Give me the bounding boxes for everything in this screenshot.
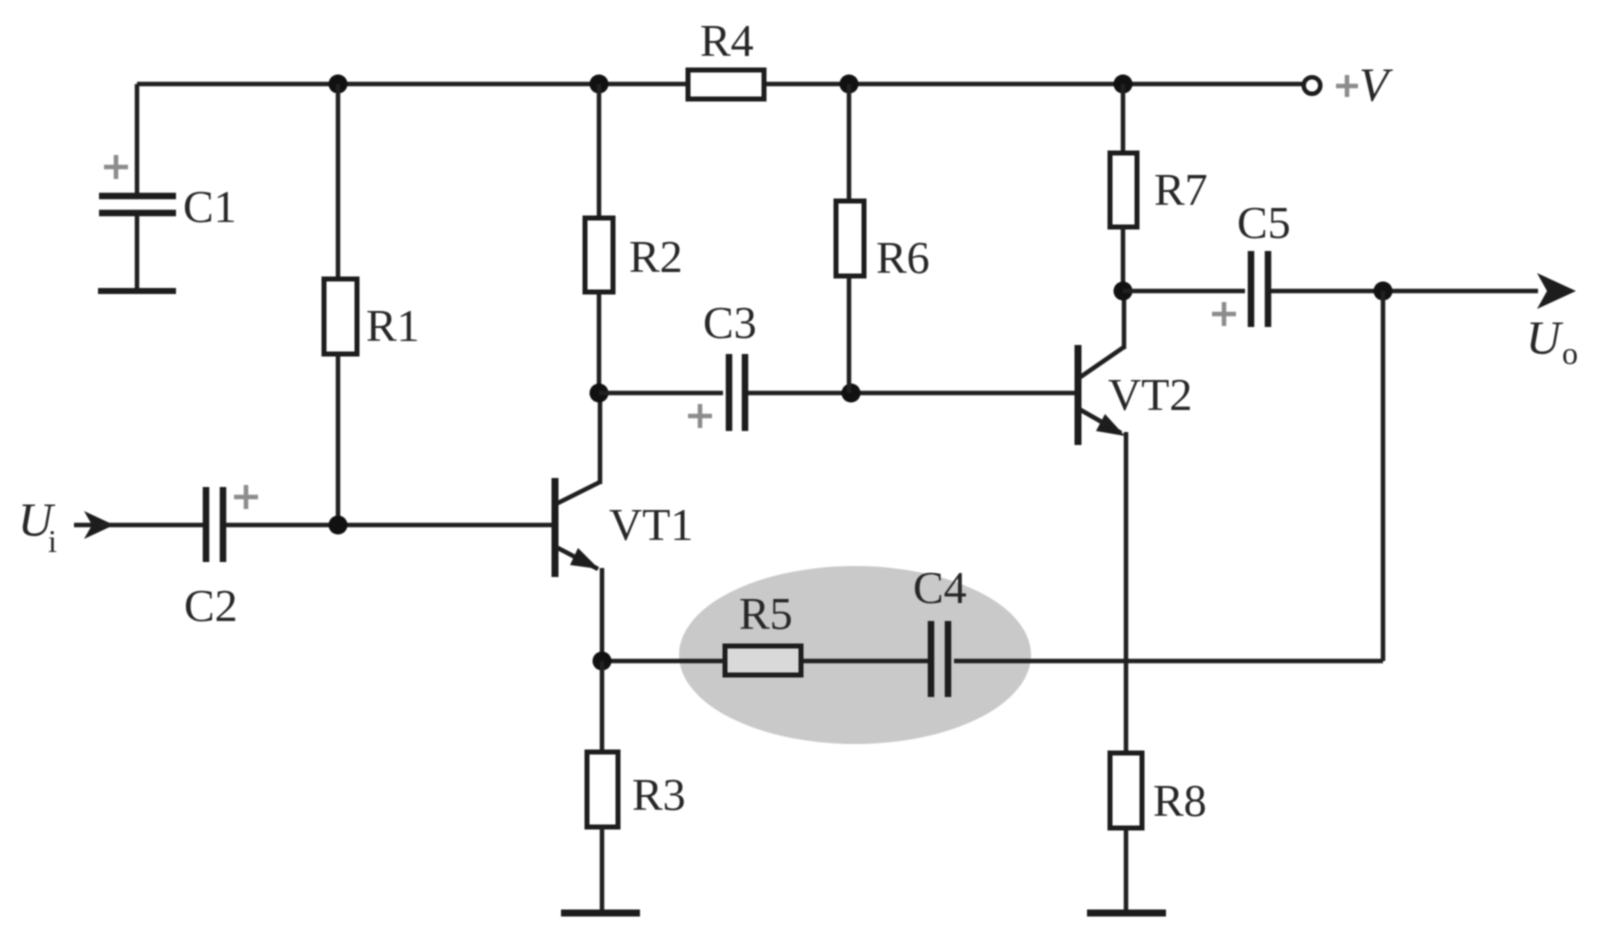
wire feedback vertical <box>1381 291 1386 661</box>
capacitor C2 <box>184 485 258 631</box>
wire VT1 collector <box>598 393 603 484</box>
capacitor C3 <box>688 297 757 431</box>
svg-text:o: o <box>1562 335 1578 371</box>
resistor R6 <box>836 84 930 393</box>
transistor VT1 <box>552 478 694 577</box>
wire top supply rail <box>137 82 1303 87</box>
wire node F to C3 <box>599 391 723 396</box>
wire feedback horizontal <box>954 659 1383 664</box>
capacitor C5 <box>1212 197 1291 327</box>
node B (rail / R2 top) <box>590 75 609 94</box>
svg-text:R1: R1 <box>366 300 420 351</box>
svg-text:C4: C4 <box>913 562 967 613</box>
svg-text:C5: C5 <box>1237 197 1291 248</box>
svg-text:R6: R6 <box>876 232 930 283</box>
transistor VT2 <box>1075 345 1193 445</box>
resistor R4 <box>688 15 764 99</box>
svg-text:V: V <box>1359 59 1393 112</box>
wire input to C2 <box>100 523 203 528</box>
ground (C1) <box>98 288 176 294</box>
node Ui label <box>18 494 57 559</box>
wire node H to C5 <box>1123 289 1245 294</box>
ground (R3) <box>561 910 640 917</box>
wire C2 to VT1 base <box>226 523 552 528</box>
input arrow <box>74 511 114 539</box>
wire R5 to VT1 emitter node <box>602 659 725 664</box>
svg-text:VT2: VT2 <box>1108 369 1192 420</box>
svg-text:R3: R3 <box>632 769 686 820</box>
svg-text:VT1: VT1 <box>609 499 693 550</box>
resistor R8 <box>1110 753 1207 913</box>
node A (rail / R1 top) <box>329 75 348 94</box>
feedback highlight ellipse <box>679 566 1031 744</box>
svg-text:R7: R7 <box>1154 164 1208 215</box>
wire C3 to VT2 base <box>748 391 1075 396</box>
svg-text:U: U <box>1526 312 1564 365</box>
capacitor C1 <box>99 84 237 289</box>
node H (R7 / VT2 collector / C5) <box>1114 282 1133 301</box>
svg-text:R2: R2 <box>629 231 683 282</box>
svg-text:R4: R4 <box>700 15 754 66</box>
node G (R6 bottom / base wire) <box>842 384 861 403</box>
resistor R5 <box>725 588 801 675</box>
resistor R3 <box>587 661 686 913</box>
node E (C2 / R1 / VT1 base) <box>329 516 348 535</box>
node J (VT1 emitter / R3 / R5) <box>593 652 612 671</box>
node F (R2 bottom / VT1 collector / C3) <box>590 384 609 403</box>
node I (output / feedback tap) <box>1374 282 1393 301</box>
node D (rail / R7 top) <box>1114 75 1133 94</box>
wire VT2 collector <box>1122 291 1127 349</box>
svg-text:C2: C2 <box>184 580 238 631</box>
svg-text:R8: R8 <box>1153 775 1207 826</box>
svg-text:C3: C3 <box>703 297 757 348</box>
ground (R8) <box>1087 910 1166 917</box>
output arrow <box>1537 273 1576 309</box>
node Uo label <box>1526 312 1578 371</box>
wire VT2 emitter <box>1124 432 1129 753</box>
+V terminal <box>1304 59 1393 112</box>
wire C5 to output <box>1271 289 1538 294</box>
svg-text:i: i <box>48 523 57 559</box>
svg-text:R5: R5 <box>739 588 793 639</box>
node C (rail / R6 top) <box>840 75 859 94</box>
wire C4 to R5 <box>801 659 928 664</box>
svg-text:C1: C1 <box>183 181 237 232</box>
capacitor C4 <box>913 562 967 697</box>
resistor R1 <box>324 84 420 525</box>
resistor R2 <box>585 84 683 393</box>
wire VT1 emitter <box>600 568 605 661</box>
resistor R7 <box>1110 84 1208 291</box>
